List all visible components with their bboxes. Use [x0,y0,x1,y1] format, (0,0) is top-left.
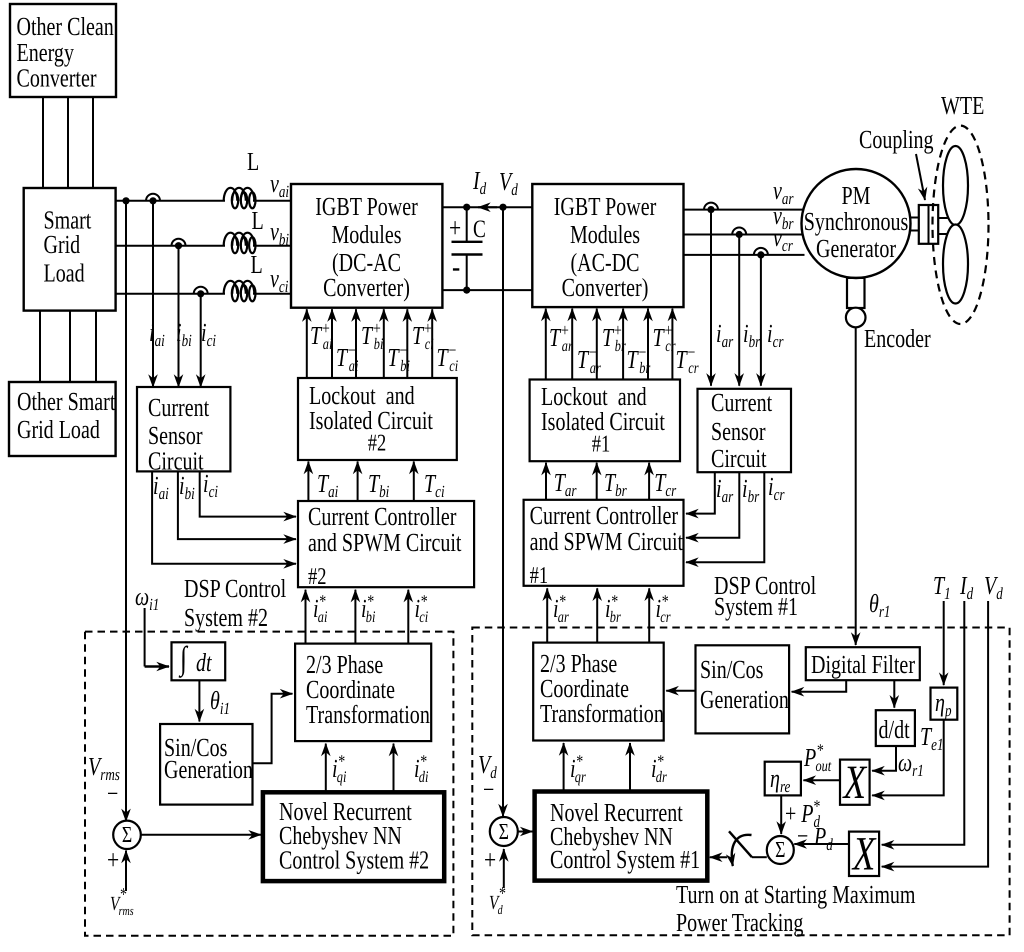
current sensor tap phase b (i_br) [732,228,746,235]
integrator block (integral dt) [172,642,226,680]
svg-text:T+ci: T+ci [412,318,434,353]
svg-text:Current: Current [148,393,210,422]
svg-text:WTE: WTE [941,91,984,120]
svg-text:i*ci: i*ci [415,591,429,626]
block d/dt [876,710,915,746]
wire i_ci down to Current Sensor Circuit [200,294,202,387]
block Current Controller and SPWM Circuit #2 [298,501,474,587]
DSP Control System #2 dashed boundary [85,632,453,936]
inductor L phase a [224,188,255,201]
svg-text:Generator: Generator [816,234,896,263]
wire T-bi Lockout #2 to DC-AC converter [383,309,385,378]
wire T_ci Controller #2 to Lockout #2 [413,462,415,502]
wire multiplier to summer (P_d) [794,843,849,845]
wire phase c (generator) [684,254,805,256]
wire i_ai down to Current Sensor Circuit [152,201,154,387]
wire Other Clean Energy Converter to Smart Grid Load (3 lines) [42,97,44,188]
svg-text:d/dt: d/dt [879,715,911,744]
svg-text:X: X [842,756,867,809]
wire i*_ci 2/3 Phase #2 to Controller #2 [407,590,409,644]
svg-text:Σ: Σ [499,819,509,844]
wire T_e1 eta_p to multiplier [872,720,944,796]
wire i*_dr Novel #1 to 2/3 Phase #1 [629,743,631,792]
shaft coupling to turbine [938,217,947,219]
wire summer output to switch [752,856,767,858]
wire V*_d into summer [503,849,505,888]
node V_d junction [499,204,506,211]
block Other Smart Grid Load [9,382,116,456]
svg-text:Transformation: Transformation [306,700,430,729]
block eta_re [765,762,801,796]
node V_rms tap junction on phase a [122,197,129,204]
junction DC- to capacitor [463,287,470,294]
svg-text:L: L [247,147,259,176]
turbine blade lower [943,225,968,304]
svg-text:L: L [251,250,263,279]
block Novel Recurrent Chebyshev NN Control System #1 [535,792,708,881]
block 2/3 Phase Coordinate Transformation #1 [533,643,664,741]
switch (turn-on at starting maximum power tracking) [729,831,752,857]
wire Digital Filter to d/dt [893,680,895,708]
wire phase b (grid) [116,245,225,247]
machine PM Synchronous Generator [802,169,911,278]
wire phase a (generator) [684,209,805,211]
wire T_ar Controller #1 to Lockout #1 [545,463,547,500]
svg-text:Modules: Modules [331,220,401,249]
svg-text:−: − [107,779,118,808]
svg-text:DSP Control: DSP Control [184,574,286,603]
svg-text:Σ: Σ [122,822,132,847]
wire V*_rms into summer [125,851,127,892]
svg-text:Generation: Generation [164,755,253,784]
wire P*_d eta_re to summer [780,795,782,834]
encoder [846,308,866,328]
svg-text:+: + [107,845,119,876]
wire i_cr down to Current Sensor Circuit [760,255,762,386]
summing junction (V_rms) DSP #2 [113,821,141,849]
svg-text:Current: Current [711,388,773,417]
svg-text:Grid Load: Grid Load [17,415,100,444]
wire Smart Grid Load to Other Smart Grid Load (3 lines) [39,311,41,382]
block eta_p [931,688,958,720]
svg-text:Current Controller: Current Controller [530,501,679,530]
svg-text:L: L [252,206,264,235]
block 2/3 Phase Coordinate Transformation #2 [295,644,431,742]
wire T_ai Controller #2 to Lockout #2 [307,462,309,502]
wire i*_qr Novel #1 to 2/3 Phase #1 [563,743,565,792]
svg-text:-: - [452,248,460,284]
WTE dashed boundary [933,126,989,324]
wire Sin/Cos #1 to 2/3 Phase #1 [666,690,695,692]
wire phase c (grid) [116,293,225,295]
wire V_d into multiplier [882,601,988,867]
wire T-ai Lockout #2 to DC-AC converter [331,309,333,378]
block Current Sensor Circuit (grid side) [137,387,230,471]
block Current Controller and SPWM Circuit #1 [524,500,684,586]
multiplier X (P_out) [840,760,870,805]
svg-text:Current Controller: Current Controller [308,502,457,531]
block Sin/Cos Generation #1 [696,645,790,733]
svg-text:Turn on at Starting Maximum: Turn on at Starting Maximum [676,880,916,909]
wire multiplier to eta_re [803,779,840,781]
wire T+ar Lockout #1 to AC-DC converter [545,309,547,380]
wire T-ci Lockout #2 to DC-AC converter [431,309,433,378]
wire T+cr Lockout #1 to AC-DC converter [647,309,649,380]
block Lockout and Isolated Circuit #1 [530,380,680,462]
arrow Coupling label to coupling [916,154,925,200]
svg-text:Control System #2: Control System #2 [279,846,429,875]
svg-text:Transformation: Transformation [540,699,664,728]
wire T+ai Lockout #2 to DC-AC converter [306,309,308,378]
wire i_bi down to Current Sensor Circuit [178,246,180,387]
inductor L phase b [224,233,255,246]
svg-text:and SPWM Circuit: and SPWM Circuit [530,527,684,556]
capacitor C [466,207,468,242]
wire i_br Current Sensor to Current Controller #1 [686,472,739,538]
arrow I_d current direction [478,206,497,208]
wire i*_cr 2/3 Phase #1 to Controller #1 [648,588,650,642]
wire summer to Novel NN #2 [141,834,261,836]
current sensor tap phase a (i_ar) [704,203,718,210]
svg-text:i*di: i*di [414,751,428,786]
wire T+bi Lockout #2 to DC-AC converter [355,309,357,378]
svg-text:Digital Filter: Digital Filter [811,650,915,679]
svg-text:Load: Load [44,259,85,288]
summing junction (V_d) DSP #1 [490,817,518,846]
block Current Sensor Circuit (generator side) [698,389,792,472]
svg-text:Circuit: Circuit [711,444,767,473]
wire i_ar Current Sensor to Current Controller #1 [686,472,715,513]
svg-text:Coupling: Coupling [859,125,934,154]
svg-text:+: + [449,213,461,244]
svg-text:Converter: Converter [17,64,97,93]
DSP Control System #1 dashed boundary [472,628,1009,936]
wire i*_bi 2/3 Phase #2 to Controller #2 [354,590,356,644]
block Digital Filter [806,647,920,680]
wire i_ar down to Current Sensor Circuit [710,210,712,386]
svg-text:#1: #1 [592,432,610,458]
wire T_1 into efficiency block [943,601,945,685]
svg-text:i*qi: i*qi [332,751,346,786]
current sensor tap phase c (i_ci) [194,287,208,294]
wire DC link positive rail [442,206,532,208]
block IGBT Power Modules (DC-AC Converter) [291,184,442,308]
svg-text:Synchronous: Synchronous [804,207,909,236]
svg-text:Other Smart: Other Smart [17,387,116,416]
block Lockout and Isolated Circuit #2 [298,378,457,460]
wire i_ci Current Sensor to Current Controller #2 [200,471,296,516]
svg-text:PM: PM [842,181,871,210]
inductor L phase c [224,281,255,294]
multiplier X (P_d) [849,832,879,876]
svg-text:Encoder: Encoder [864,324,931,353]
wire T-cr Lockout #1 to AC-DC converter [671,309,673,380]
svg-text:#1: #1 [530,563,548,589]
wire T_br Controller #1 to Lockout #1 [596,463,598,500]
current sensor tap phase a (i_ai) [146,194,160,201]
current sensor tap phase b (i_bi) [172,239,186,246]
wire encoder angle th_r1 to Digital Filter [855,327,857,645]
svg-text:−: − [483,775,494,804]
block Smart Grid Load [24,188,116,311]
svg-text:System #2: System #2 [184,603,268,632]
summing junction (P_d) DSP #1 [767,836,794,864]
svg-text:and SPWM Circuit: and SPWM Circuit [308,528,462,557]
svg-text:IGBT Power: IGBT Power [315,192,418,221]
svg-text:Grid: Grid [44,230,81,259]
wire summer to Novel NN #1 [518,831,533,833]
wire i*_ai 2/3 Phase #2 to Controller #2 [305,590,307,644]
svg-text:T−ci: T−ci [437,340,459,375]
svg-text:Power Tracking: Power Tracking [676,908,803,937]
wire DC link negative rail [442,289,532,291]
svg-text:dt: dt [196,648,212,677]
svg-text:C: C [473,216,486,243]
wire i_bi Current Sensor to Current Controller #2 [178,471,296,539]
svg-text:Converter): Converter) [562,273,649,302]
wire switch to Novel NN #1 [710,856,727,858]
coupling [919,205,938,244]
wire phase a (grid) with inductor [116,200,225,202]
wire i_ai Current Sensor to Current Controller #2 [152,471,296,563]
wire omega_r1 d/dt to multiplier [872,746,896,771]
wire T_cr Controller #1 to Lockout #1 [648,463,650,500]
svg-text:Other Clean: Other Clean [17,12,114,41]
svg-text:#2: #2 [368,431,386,457]
svg-text:+: + [484,845,496,876]
wire i*_ar 2/3 Phase #1 to Controller #1 [546,588,548,642]
wire Sin/Cos #2 to 2/3 Phase #2 [253,694,293,764]
wire phase b (generator) [684,234,803,236]
svg-text:Modules: Modules [570,220,640,249]
wire theta_i1 integrator to Sin/Cos Generation [198,680,200,721]
wire T+br Lockout #1 to AC-DC converter [596,309,598,380]
wire I_d into multiplier [882,601,965,845]
svg-text:−: − [797,822,808,851]
svg-text:i*ai: i*ai [313,591,327,626]
wire i_br down to Current Sensor Circuit [738,235,740,386]
wire omega_i1 to integrator [144,608,146,667]
wire V_d sense line down to summer (DSP #1) [502,207,504,816]
wire T_bi Controller #2 to Lockout #2 [357,462,359,502]
svg-text:i*bi: i*bi [361,591,375,626]
wire T-ar Lockout #1 to AC-DC converter [571,309,573,380]
svg-text:#2: #2 [308,564,326,590]
block IGBT Power Modules (AC-DC Converter) [532,184,683,307]
svg-text:Converter): Converter) [323,273,410,302]
turbine blade upper [943,146,968,225]
wire i*_qi Novel #2 to 2/3 Phase #2 [325,744,327,793]
svg-text:X: X [851,828,876,881]
wire i*_br 2/3 Phase #1 to Controller #1 [596,588,598,642]
shaft generator to coupling [911,217,920,219]
wire i*_di Novel #2 to 2/3 Phase #2 [393,744,395,793]
encoder shaft [847,278,865,308]
svg-text:IGBT Power: IGBT Power [554,192,657,221]
junction DC+ to capacitor [463,204,470,211]
svg-text:Generation: Generation [700,685,789,714]
svg-text:System #1: System #1 [714,592,798,621]
block Sin/Cos Generation #2 [160,724,252,805]
wire i_cr Current Sensor to Current Controller #1 [686,472,764,562]
wire T+ci Lockout #2 to DC-AC converter [406,309,408,378]
svg-text:Control System #1: Control System #1 [550,845,700,874]
block Novel Recurrent Chebyshev NN Control System #2 [263,792,444,881]
current sensor tap phase c (i_cr) [754,248,768,255]
svg-text:Sin/Cos: Sin/Cos [700,655,763,684]
block Other Clean Energy Converter [10,4,116,97]
wire Digital Filter to Sin/Cos Generation #1 [792,680,847,692]
svg-text:Σ: Σ [775,837,785,862]
wire V_rms sense line down to summer [125,201,127,822]
svg-text:Sensor: Sensor [711,417,766,446]
wire T-br Lockout #1 to AC-DC converter [622,309,624,380]
